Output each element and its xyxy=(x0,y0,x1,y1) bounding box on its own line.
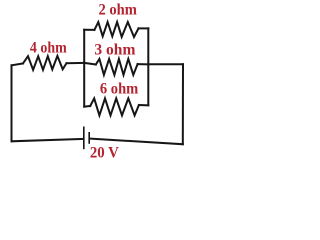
svg-text:2 ohm: 2 ohm xyxy=(99,1,138,18)
wire 3ohm branch right xyxy=(138,63,149,65)
svg-text:20 V: 20 V xyxy=(90,144,119,161)
wire left vertical xyxy=(11,65,13,141)
resistor R4 6 ohm xyxy=(90,98,139,115)
resistor R3 3 ohm xyxy=(96,59,138,75)
battery plate short xyxy=(88,132,90,144)
wire 2ohm branch right xyxy=(139,27,149,29)
battery plate long xyxy=(82,127,84,150)
resistor R2 2 ohm xyxy=(94,22,138,37)
wire bottom left xyxy=(12,139,84,141)
wire 2ohm branch left xyxy=(84,29,94,31)
wire right vertical xyxy=(182,64,184,144)
resistor R1 4 ohm xyxy=(23,56,67,70)
svg-text:3 ohm: 3 ohm xyxy=(94,41,136,58)
wire top right xyxy=(148,63,183,65)
wire R1 to left bus xyxy=(67,62,85,64)
wire 3ohm branch left xyxy=(84,63,96,65)
wire 6ohm branch left xyxy=(84,105,90,108)
wire 6ohm branch right xyxy=(139,104,148,106)
wire top left xyxy=(12,63,24,65)
svg-text:4 ohm: 4 ohm xyxy=(30,39,67,56)
svg-text:6 ohm: 6 ohm xyxy=(100,80,139,97)
wire bottom right xyxy=(90,139,183,145)
node right bus xyxy=(147,28,149,105)
node left bus xyxy=(83,30,85,107)
